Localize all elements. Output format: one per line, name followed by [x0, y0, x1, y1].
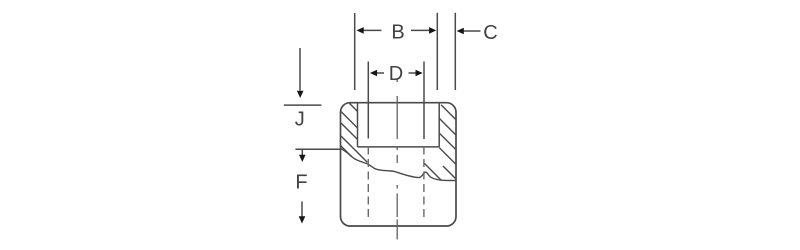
B left arrowhead	[357, 27, 364, 34]
break line (wavy section boundary)	[341, 149, 456, 181]
B extension line right	[436, 13, 438, 90]
D extension line right	[423, 62, 425, 140]
center line	[396, 79, 398, 240]
F lower down arrowhead	[299, 216, 306, 223]
svg-text:D: D	[389, 63, 403, 85]
hidden bore line left (dashed)	[367, 147, 369, 222]
J dimension arrow shaft	[299, 48, 301, 91]
J down arrowhead	[297, 91, 304, 98]
B extension line left	[354, 13, 356, 90]
svg-text:B: B	[391, 22, 404, 44]
socket right wall	[438, 103, 440, 147]
F upper down arrowhead	[299, 155, 306, 162]
svg-text:C: C	[483, 22, 497, 44]
F leader line	[295, 148, 341, 150]
body outline (cap cross-section)	[341, 103, 457, 226]
socket left wall	[357, 103, 359, 147]
arrowheads	[297, 27, 464, 223]
F lower arrow shaft	[301, 201, 303, 216]
D right arrowhead	[416, 70, 423, 77]
D extension line left	[367, 62, 369, 139]
D left arrowhead	[370, 70, 377, 77]
svg-text:F: F	[295, 172, 307, 194]
hatch left wall	[341, 103, 367, 162]
C extension line	[454, 13, 456, 90]
J tick line	[284, 104, 322, 106]
hatch right wall	[424, 105, 456, 181]
dimension B line	[364, 29, 382, 31]
socket bottom shoulder	[358, 146, 440, 148]
dimension D line	[377, 72, 384, 74]
svg-text:J: J	[295, 109, 305, 131]
F upper arrow shaft	[301, 149, 303, 155]
dimension C line	[463, 30, 481, 32]
C arrowhead	[457, 28, 464, 35]
hidden bore line right (dashed)	[423, 147, 425, 222]
B right arrowhead	[429, 27, 436, 34]
